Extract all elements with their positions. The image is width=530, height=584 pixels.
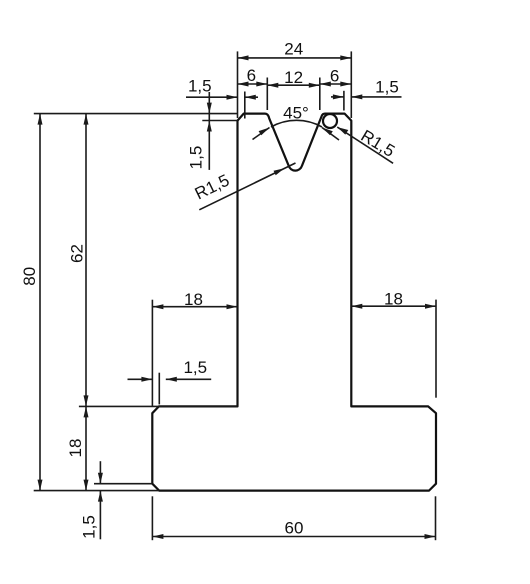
svg-text:1,5: 1,5	[183, 358, 207, 377]
svg-text:18: 18	[384, 290, 403, 309]
svg-text:1,5: 1,5	[80, 515, 99, 539]
svg-text:1,5: 1,5	[187, 146, 206, 170]
svg-text:45°: 45°	[283, 104, 309, 123]
svg-text:24: 24	[284, 40, 303, 59]
svg-text:6: 6	[330, 67, 339, 86]
svg-text:62: 62	[68, 244, 87, 263]
svg-text:18: 18	[66, 439, 85, 458]
svg-text:1,5: 1,5	[188, 76, 212, 95]
svg-text:6: 6	[247, 66, 256, 85]
svg-text:1,5: 1,5	[375, 77, 399, 96]
svg-text:12: 12	[284, 68, 303, 87]
svg-text:18: 18	[184, 290, 203, 309]
svg-text:80: 80	[20, 267, 39, 286]
svg-text:60: 60	[285, 519, 304, 538]
